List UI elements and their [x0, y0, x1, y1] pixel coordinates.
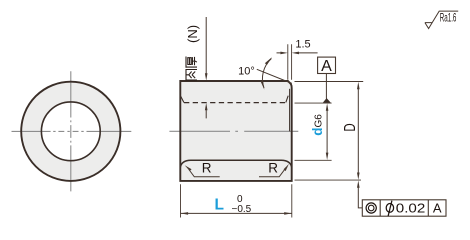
L dimension line	[181, 212, 292, 214]
D extension lines	[295, 82, 364, 181]
feature control frame	[362, 200, 446, 216]
concentricity leader line	[358, 186, 362, 208]
side view body outline	[180, 81, 291, 181]
10 degree arc arrows	[261, 57, 272, 90]
L extension lines	[181, 184, 292, 217]
svg-text:−0.5: −0.5	[232, 204, 252, 215]
1.5 dimension line	[277, 52, 318, 54]
1.5 dimension arrows	[280, 52, 299, 55]
R leader left arrow	[185, 165, 192, 171]
R leader left line	[189, 170, 220, 177]
wall thickness dimension lines	[205, 17, 207, 118]
front view vertical centerline	[70, 71, 72, 191]
bore chamfer hidden tick right	[286, 96, 288, 103]
svg-text:R: R	[268, 161, 278, 176]
D dimension arrows	[357, 82, 360, 180]
bore bottom line with corner radii	[180, 160, 291, 167]
d G6 arrows	[326, 103, 329, 160]
svg-text:Ra1.6: Ra1.6	[440, 10, 457, 24]
svg-text:(N): (N)	[185, 25, 200, 43]
side view axis centerline	[169, 130, 298, 132]
d G6 extension lines	[295, 103, 332, 160]
svg-text:1.5: 1.5	[295, 38, 310, 50]
chamfer extension diagonal line	[257, 69, 292, 83]
10 degree angle arc	[262, 59, 271, 89]
datum leader line	[325, 74, 327, 99]
front view horizontal centerline	[12, 130, 132, 132]
concentricity leader arrow	[357, 180, 360, 187]
tolerance value	[386, 204, 393, 213]
D dimension line	[357, 88, 359, 175]
L dimension arrows	[181, 212, 292, 215]
svg-text:A: A	[433, 201, 442, 216]
bore chamfer hidden tick left	[181, 96, 184, 102]
front view outer circle fill	[21, 82, 120, 181]
R leader right arrow	[284, 164, 289, 171]
svg-text:D: D	[342, 123, 359, 131]
svg-text:10°: 10°	[238, 65, 255, 77]
front view bore circle	[41, 102, 100, 161]
bore hidden dashed line	[184, 102, 285, 104]
svg-text:0.02: 0.02	[396, 201, 426, 215]
svg-text:L: L	[215, 196, 224, 213]
datum A box	[318, 57, 336, 73]
wall thickness arrows	[205, 73, 208, 110]
chamfer edge inner vertical line	[289, 89, 291, 132]
side view body fill	[180, 81, 291, 181]
front view outer circle	[21, 82, 120, 181]
surface finish symbol	[425, 11, 458, 28]
wall thickness label 肉厚 (N)	[185, 25, 200, 80]
concentricity symbol	[366, 203, 376, 213]
d G6 dimension line	[326, 109, 328, 154]
R leader right line	[259, 170, 285, 177]
1.5 dimension extension lines	[288, 44, 292, 80]
front view bore fill	[41, 102, 100, 161]
datum filled triangle	[323, 98, 331, 103]
svg-text:A: A	[321, 58, 332, 75]
svg-text:R: R	[202, 161, 212, 176]
